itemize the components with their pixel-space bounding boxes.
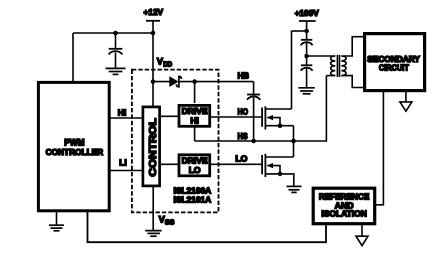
- wire top-left horizontal to PWM/cap: [73, 32, 153, 34]
- node junction dot HS-fets: [291, 139, 296, 144]
- svg-text:DD: DD: [163, 61, 172, 68]
- node VDD label: [157, 57, 172, 69]
- wire primary bottom to HS: [326, 75, 335, 77]
- wire LI from PWM to CONTROL: [109, 170, 143, 172]
- ISL2100A part number labels: [174, 186, 212, 205]
- transformer T1 core: [337, 55, 339, 77]
- wire down to PWM top: [72, 33, 74, 82]
- wire bottom return PWM to reference box: [88, 211, 327, 242]
- wire VSS stem from CONTROL bottom to ground: [152, 186, 154, 230]
- node VSS label: [159, 214, 175, 226]
- chassis ground triangle under secondary box: [400, 91, 412, 112]
- svg-text:ISOLATION: ISOLATION: [321, 209, 367, 219]
- wire CONTROL to DRIVE LO: [161, 163, 179, 165]
- svg-text:CONTROLLER: CONTROLLER: [46, 147, 104, 157]
- ground below Q2: [287, 186, 302, 192]
- svg-text:LO: LO: [189, 165, 201, 175]
- wire branch to Q1 drain: [292, 30, 307, 32]
- svg-text:+100V: +100V: [295, 8, 319, 18]
- node +100V supply terminal: [295, 8, 319, 21]
- capacitor C4 bootstrap: [247, 82, 260, 140]
- PWM controller U2 box: [38, 82, 109, 210]
- svg-text:HI: HI: [190, 115, 199, 125]
- node junction dot cap midpoint: [304, 54, 309, 59]
- svg-text:HO: HO: [238, 107, 249, 117]
- node junction dot at 12V rail split: [151, 31, 156, 36]
- node junction dot at cap branch: [113, 31, 118, 36]
- capacitor C3 lower divider: [301, 65, 313, 87]
- transformer T1 secondary winding: [341, 56, 346, 76]
- ground VSS: [145, 231, 161, 237]
- diode D1 schottky: [169, 76, 181, 87]
- svg-text:LO: LO: [235, 154, 247, 164]
- wire secondary top to box: [341, 37, 363, 56]
- wire Q1 source / Q2 drain vertical: [293, 126, 295, 157]
- wire HS line: [195, 76, 327, 141]
- svg-text:+12V: +12V: [144, 7, 164, 17]
- svg-text:LI: LI: [119, 157, 127, 167]
- wire CONTROL to DRIVE HI: [161, 115, 179, 117]
- control block U1 box: [143, 107, 160, 186]
- ground below PWM: [49, 211, 64, 231]
- transistor Q1 high-side NMOS: [262, 106, 293, 129]
- svg-text:ISL2101A: ISL2101A: [174, 194, 212, 204]
- svg-text:HS: HS: [238, 131, 248, 141]
- node junction dot at DRIVE HI top: [192, 79, 197, 84]
- wire midpoint to primary: [307, 55, 336, 57]
- wire secondary box bottom to reference box: [375, 91, 384, 205]
- wire VDD rail vertical from +12V to CONTROL: [152, 21, 154, 107]
- wire HI from PWM to CONTROL: [109, 117, 143, 119]
- chassis ground triangle under reference box: [356, 224, 368, 246]
- node junction dot 100V branch: [304, 29, 309, 34]
- capacitor C1 (12V decoupling): [109, 33, 123, 68]
- svg-text:SS: SS: [165, 220, 175, 227]
- ground below C1: [106, 68, 126, 74]
- wire +100V down: [306, 21, 308, 40]
- transistor Q2 low-side NMOS: [262, 154, 294, 186]
- wire secondary bottom to box: [341, 76, 363, 88]
- svg-text:HI: HI: [118, 107, 127, 117]
- node +12V supply terminal: [144, 7, 164, 21]
- drive HI block box: [179, 105, 210, 126]
- wire DRIVE HI bottom to HS: [194, 127, 196, 141]
- wire cathode to HB corner: [179, 81, 254, 83]
- secondary circuit box: [365, 34, 425, 91]
- transformer T1 primary winding: [331, 56, 336, 76]
- svg-text:DRIVE: DRIVE: [182, 155, 208, 165]
- svg-text:PWM: PWM: [64, 137, 84, 147]
- svg-text:HB: HB: [238, 71, 250, 81]
- wire LO from DRIVE LO to Q2 gate: [211, 163, 261, 165]
- ground below C3: [298, 88, 314, 94]
- reference and isolation box: [313, 188, 375, 224]
- node junction dot VDD at diode branch: [151, 79, 156, 84]
- node junction dot HS-cap: [251, 139, 256, 144]
- capacitor C2 upper divider: [301, 40, 313, 65]
- wire HO from DRIVE HI to Q1 gate: [211, 116, 261, 118]
- drive LO block box: [179, 155, 210, 176]
- svg-text:CONTROL: CONTROL: [148, 118, 159, 177]
- wire Q1 drain to +100V rail: [291, 31, 293, 109]
- svg-text:CIRCUIT: CIRCUIT: [379, 62, 409, 72]
- wire anode: [153, 81, 169, 83]
- svg-text:V: V: [157, 57, 163, 67]
- IC boundary dashed box ISL2100A: [132, 70, 219, 213]
- wire DRIVE HI top: [194, 82, 196, 103]
